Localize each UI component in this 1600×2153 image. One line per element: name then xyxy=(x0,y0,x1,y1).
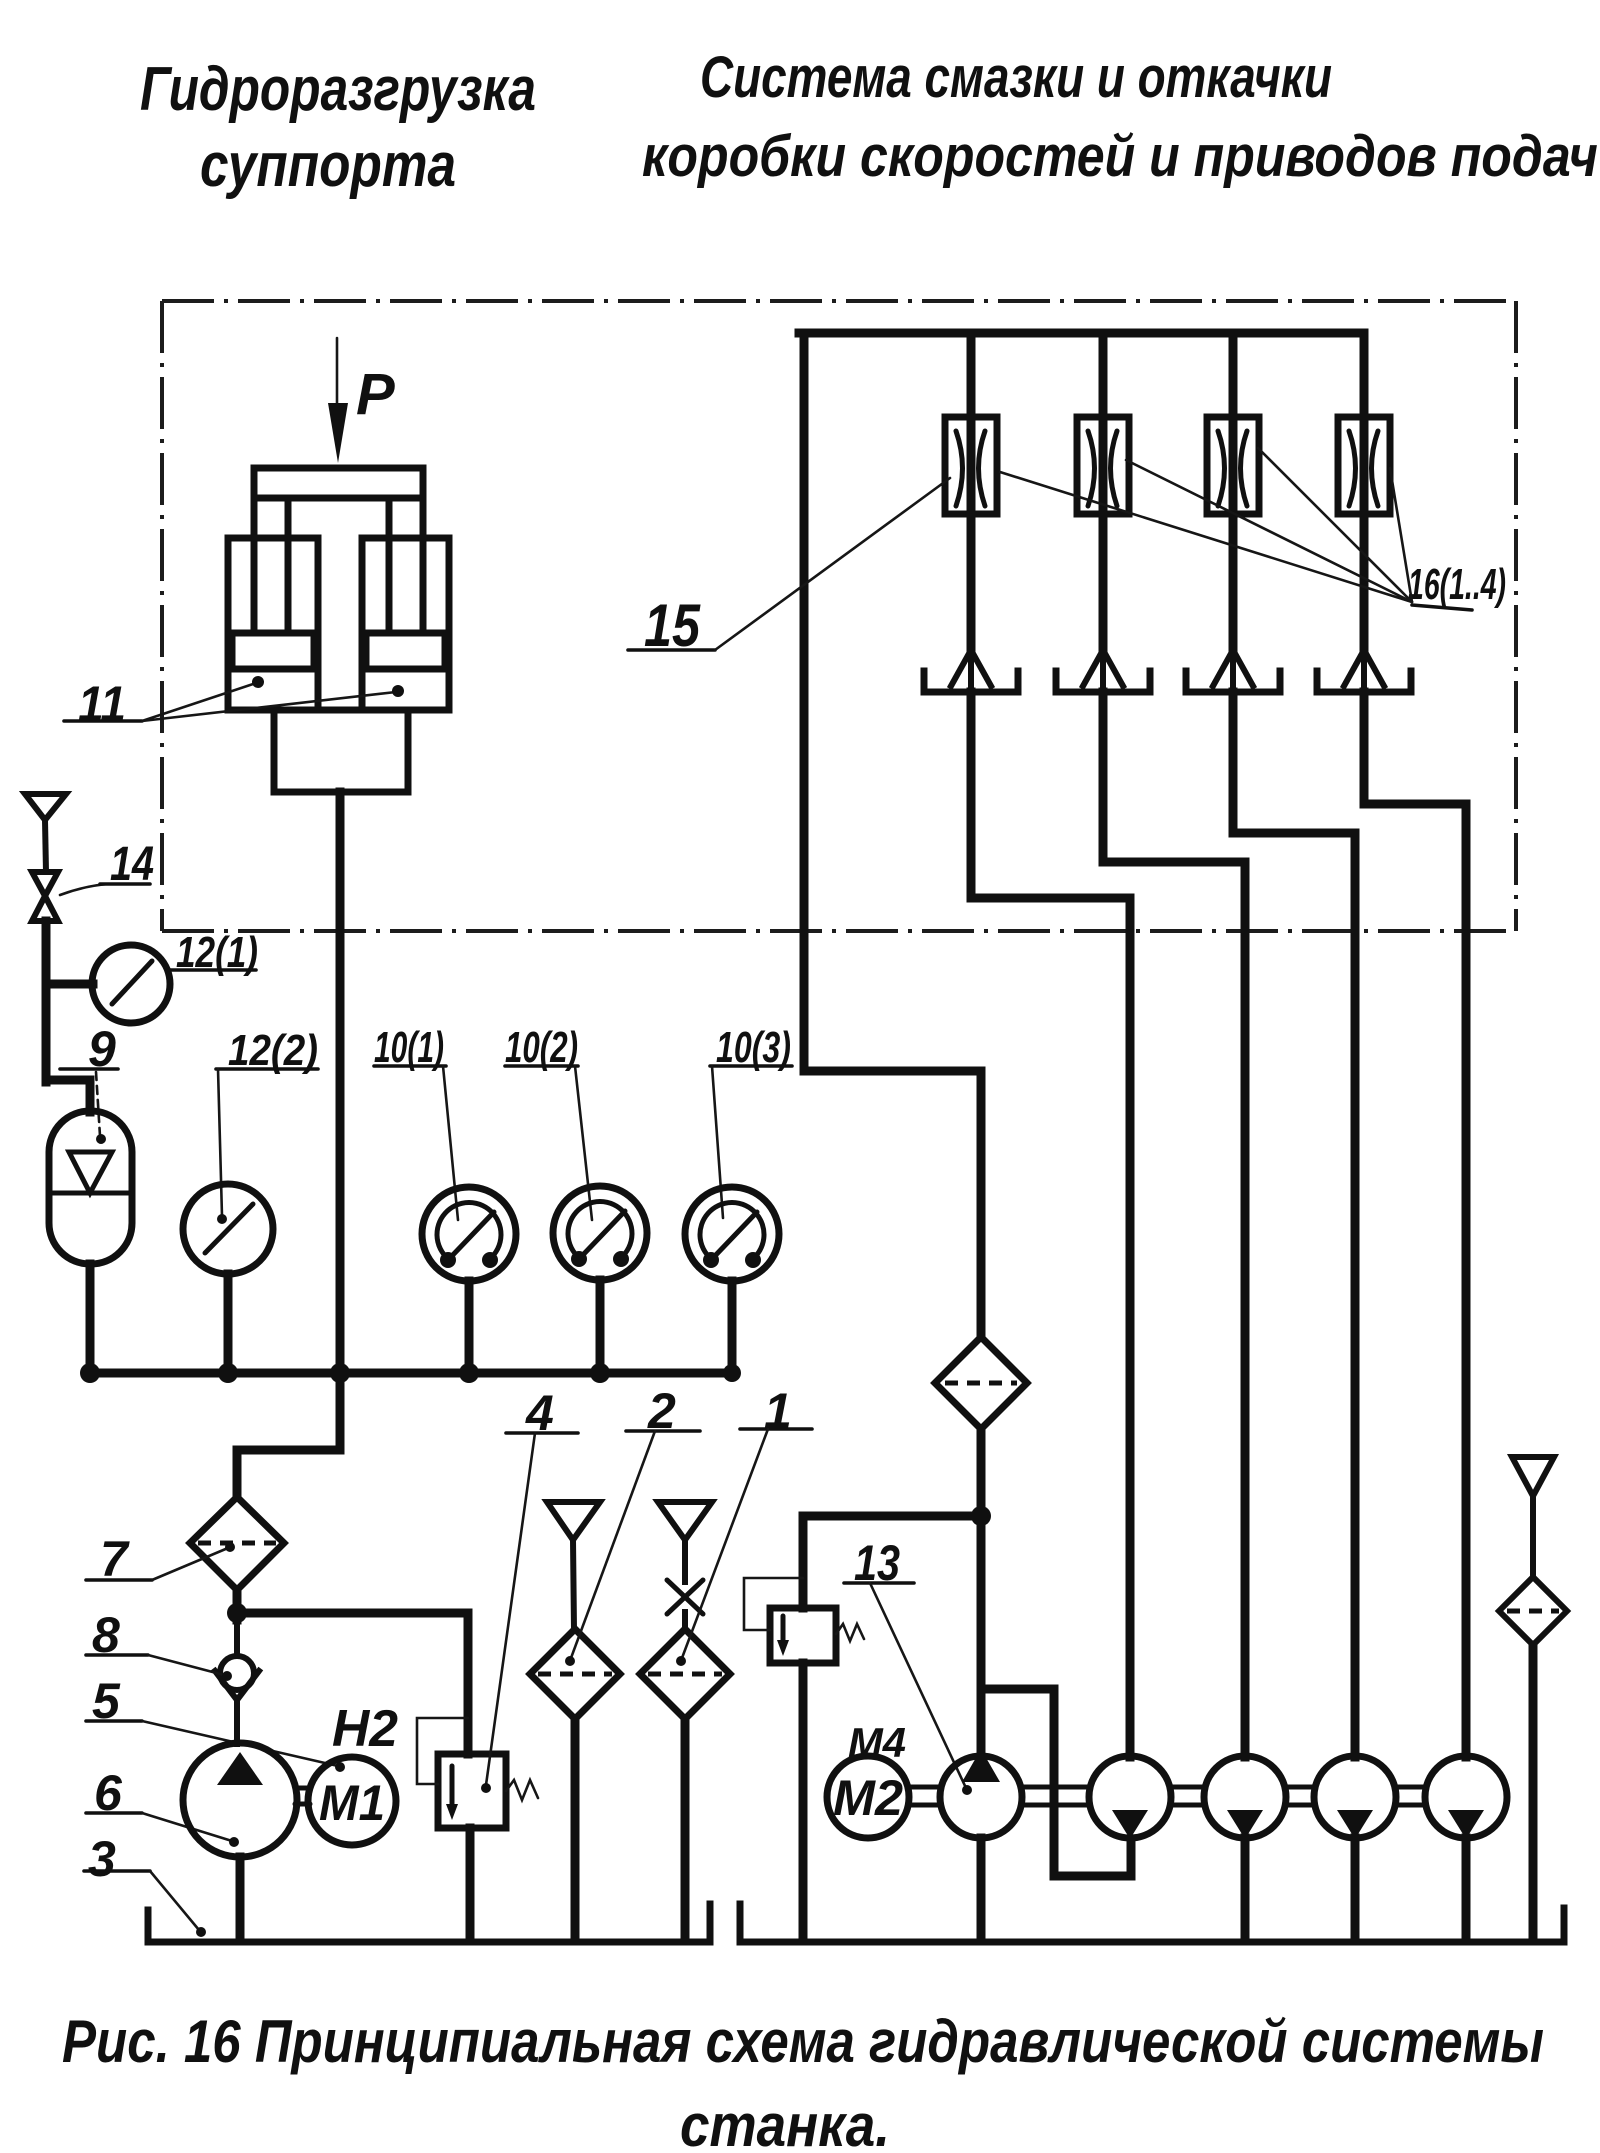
check valve 3 xyxy=(1186,650,1280,692)
tank left xyxy=(148,1904,710,1942)
shaft pump4-pump5 xyxy=(1397,1787,1424,1805)
check valve 1 xyxy=(924,650,1018,692)
wire: far right filter to tank xyxy=(1529,1645,1538,1940)
wire: junction to relief valve 4 xyxy=(237,1613,468,1754)
wire: branch4 staircase to pump5 xyxy=(1364,692,1466,1757)
svg-text:3: 3 xyxy=(88,1831,116,1887)
wire: pump4 to tank xyxy=(1351,1838,1360,1940)
contact gauge 10(1) xyxy=(422,1187,516,1281)
caption xyxy=(62,2008,1544,2153)
pump 3 (scavenge) xyxy=(1204,1756,1286,1839)
svg-text:Рис. 16 Принципиальная схема г: Рис. 16 Принципиальная схема гидравличес… xyxy=(62,2008,1544,2075)
dash-dot enclosure frame xyxy=(162,301,1516,931)
label 12(1) xyxy=(170,928,258,977)
svg-text:М1: М1 xyxy=(319,1775,385,1831)
wire: junction down to pump 1 xyxy=(977,1516,986,1757)
tank right xyxy=(740,1904,1564,1942)
shaft pump3-pump4 xyxy=(1287,1787,1313,1805)
motor M1 xyxy=(308,1757,396,1845)
check valve 8 xyxy=(215,1622,259,1744)
filter 1 xyxy=(640,1629,730,1719)
wire: jog left toward filter 7 xyxy=(237,1450,340,1497)
wire: filter 1 to tank xyxy=(681,1719,690,1938)
wire: branch 4 drop through meter xyxy=(1360,333,1369,650)
label 1 with leader xyxy=(676,1383,812,1666)
wire: valve 4 to tank xyxy=(466,1828,475,1940)
breather triangle top left xyxy=(25,794,66,872)
svg-text:11: 11 xyxy=(78,676,126,732)
contact gauge 10(3) xyxy=(685,1187,779,1281)
wire: branch 1 drop through meter xyxy=(967,333,976,650)
wire: branch1 staircase to pump2 xyxy=(971,692,1130,1757)
flow meter 16(4) xyxy=(1338,417,1390,514)
pump 1 (supply) xyxy=(940,1749,1022,1838)
wire: cylinder feed line down to bus xyxy=(336,792,345,1450)
svg-text:Н2: Н2 xyxy=(332,1700,398,1758)
node bus-accumulator xyxy=(80,1363,100,1383)
wire: into accumulator xyxy=(46,1080,90,1112)
wire: filter to junction xyxy=(977,1429,986,1525)
label 4 with leader xyxy=(481,1385,578,1793)
wire: gauge 12(2) to bus xyxy=(224,1274,233,1373)
shutoff valve 14 (bowtie) xyxy=(32,872,58,921)
wire: valve 14 down xyxy=(42,921,51,1082)
wire: relief 13 to tank xyxy=(799,1663,808,1940)
shaft pump6-M1 xyxy=(295,1788,310,1804)
label 16(1..4) with leaders xyxy=(1000,448,1506,610)
svg-text:суппорта: суппорта xyxy=(200,131,456,200)
flow meter 16(1) xyxy=(945,417,997,514)
svg-text:М4: М4 xyxy=(848,1719,906,1766)
breather above filter 1 xyxy=(658,1502,712,1582)
label 5 xyxy=(86,1673,345,1772)
wire: gauge bus xyxy=(88,1369,733,1378)
relief valve 4 xyxy=(417,1718,538,1828)
node below filter 7 xyxy=(227,1603,247,1623)
label 14 xyxy=(60,838,154,895)
wire: main riser xyxy=(804,333,981,1337)
wire: branch3 staircase to pump4 xyxy=(1233,692,1355,1757)
svg-text:Система смазки и откачки: Система смазки и откачки xyxy=(700,45,1332,110)
gauge 12(2) xyxy=(183,1184,273,1274)
wire: gauge 10(3) to bus xyxy=(728,1281,737,1373)
cylinder 11 left piston xyxy=(232,633,314,669)
svg-text:коробки скоростей и приводов п: коробки скоростей и приводов подач xyxy=(642,124,1598,189)
check valve 4 xyxy=(1317,650,1411,692)
label 10(1) xyxy=(374,1023,458,1220)
wire: accumulator to bus xyxy=(86,1264,95,1373)
node bus-10(2) xyxy=(590,1363,610,1383)
wire: pump5 to tank xyxy=(1462,1838,1471,1940)
wire: gauge 10(2) to bus xyxy=(596,1280,605,1373)
shaft pump1-pump2 xyxy=(1023,1787,1089,1805)
filter far right xyxy=(1499,1577,1567,1645)
gauge 12(1) xyxy=(92,945,170,1023)
closed port X symbol xyxy=(667,1580,703,1630)
node main junction right xyxy=(971,1506,991,1526)
cylinder 11 right chamber body xyxy=(362,538,449,710)
svg-text:Р: Р xyxy=(356,362,395,427)
pump 4 (scavenge) xyxy=(1314,1756,1396,1839)
node bus-10(3) xyxy=(723,1364,741,1382)
wire: filter 2 to tank xyxy=(571,1719,580,1940)
title right: Система смазки и откачки коробки скоростей и приводов подач xyxy=(642,45,1598,189)
cylinder 11 top plate xyxy=(254,468,423,498)
filter 7 xyxy=(190,1497,284,1590)
contact gauge 10(2) xyxy=(553,1186,647,1280)
label 11 with leaders xyxy=(64,676,404,732)
label 6 xyxy=(86,1765,239,1847)
motor M2 xyxy=(827,1756,909,1838)
wire: top distribution bus xyxy=(799,329,1364,338)
svg-text:станка.: станка. xyxy=(680,2092,890,2153)
node bus-main xyxy=(330,1363,350,1383)
wire: branch 3 drop through meter xyxy=(1229,333,1238,650)
node bus-12(2) xyxy=(218,1363,238,1383)
node bus-10(1) xyxy=(459,1363,479,1383)
relief valve 13 xyxy=(744,1578,864,1663)
filter 2 xyxy=(530,1629,620,1719)
breather above filter 2 xyxy=(547,1502,600,1630)
pump 2 (scavenge) xyxy=(1089,1756,1171,1839)
wire: pump3 to tank xyxy=(1241,1838,1250,1940)
cylinder 11 right piston xyxy=(366,633,445,669)
label 2 with leader xyxy=(565,1383,700,1666)
wire: branch2 staircase to pump3 xyxy=(1103,692,1245,1757)
wire: gauge 10(1) to bus xyxy=(465,1281,474,1373)
label 10(2) xyxy=(505,1023,592,1220)
cylinder 11 bottom manifold box xyxy=(274,710,408,792)
cylinder 11 left plunger leg xyxy=(254,498,288,633)
label 7 xyxy=(86,1531,235,1587)
accumulator 9 xyxy=(49,1111,132,1264)
svg-text:Гидроразгрузка: Гидроразгрузка xyxy=(140,55,536,124)
wire: branch 2 drop through meter xyxy=(1099,333,1108,650)
shaft M2-pump1 xyxy=(910,1787,941,1805)
cylinder 11 right plunger leg xyxy=(389,498,423,633)
check valve 2 xyxy=(1056,650,1150,692)
breather far right xyxy=(1512,1457,1554,1578)
pump 5 (scavenge) xyxy=(1425,1756,1507,1839)
wire: pump1 to tank xyxy=(977,1838,986,1940)
pump 6 xyxy=(183,1743,297,1857)
flow meter 16(2) xyxy=(1077,417,1129,514)
wire: pump1 branch to pump2 suction xyxy=(981,1689,1131,1876)
cylinder 11 left chamber body xyxy=(228,538,318,710)
label 8 xyxy=(86,1607,232,1681)
label 13 with leader xyxy=(844,1535,972,1795)
force arrow P xyxy=(328,338,395,463)
wire: filter 7 to junction xyxy=(233,1590,242,1620)
filter (right main) xyxy=(935,1337,1027,1429)
label 12(2) xyxy=(216,1026,318,1224)
shaft pump2-pump3 xyxy=(1172,1787,1203,1805)
label 10(3) xyxy=(710,1023,792,1218)
wire: junction to relief 13 xyxy=(803,1516,981,1608)
wire: branch to gauge 12(1) xyxy=(46,980,93,989)
title left: Гидроразгрузка суппорта xyxy=(140,55,536,200)
svg-text:16(1..4): 16(1..4) xyxy=(1408,560,1506,609)
label 3 xyxy=(84,1831,206,1937)
label 9 xyxy=(60,1021,118,1144)
label 15 with leader xyxy=(628,478,950,659)
svg-text:М2: М2 xyxy=(833,1770,903,1826)
flow meter 16(3) xyxy=(1207,417,1259,514)
wire: pump 6 to tank xyxy=(236,1857,245,1940)
